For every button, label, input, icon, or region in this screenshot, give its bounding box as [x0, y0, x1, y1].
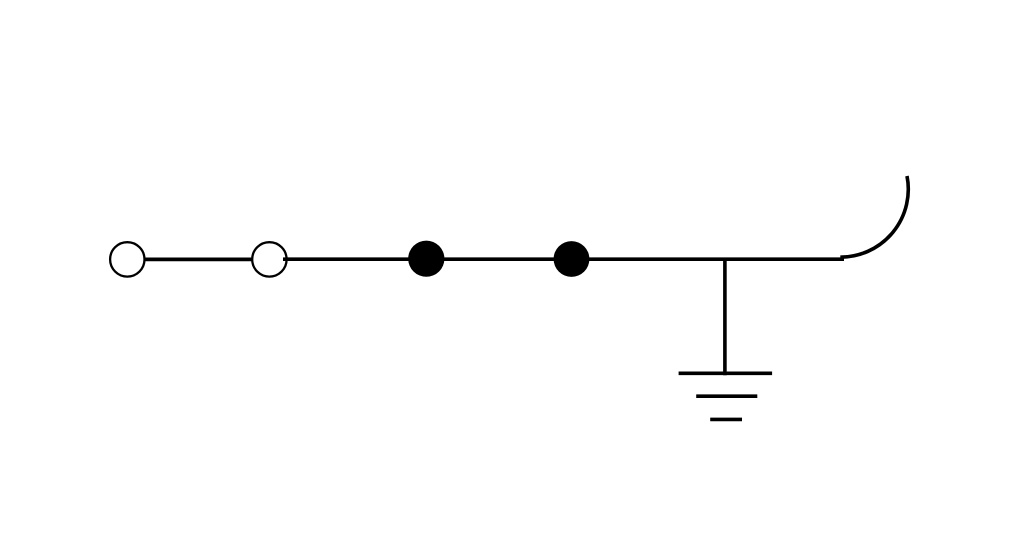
- wire W1: [145, 258, 252, 262]
- terminal T2 (open circle): [252, 242, 286, 276]
- node N1 (filled junction dot): [408, 241, 444, 277]
- node N2 (filled junction dot): [554, 241, 590, 277]
- wire W3 (curved riser): [840, 176, 908, 257]
- wire stub into T2: [283, 257, 289, 261]
- ground: [679, 373, 773, 419]
- terminal T1 (open circle): [110, 242, 144, 276]
- wire W2: [284, 257, 844, 261]
- wire W4 (vertical to ground): [723, 258, 727, 375]
